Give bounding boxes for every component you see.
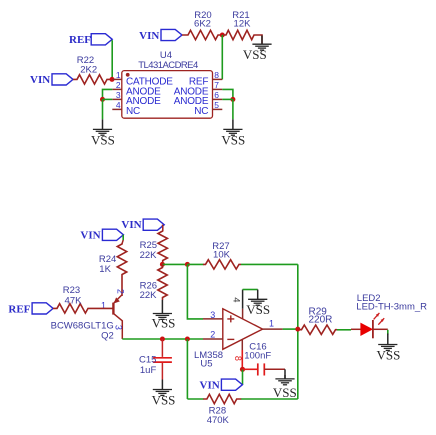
svg-text:47K: 47K [65, 296, 83, 307]
svg-text:7: 7 [214, 80, 219, 90]
svg-text:22K: 22K [140, 290, 158, 301]
svg-text:22K: 22K [140, 250, 158, 261]
port VIN (above R24) [80, 229, 123, 241]
node U5 output junction [295, 327, 300, 332]
node R20-R21 junction [220, 33, 225, 38]
pin 6 U4 [213, 90, 223, 100]
wire right rail (R27 to R28) [297, 264, 299, 399]
svg-text:220R: 220R [309, 315, 333, 326]
svg-text:LED-TH-3mm_R: LED-TH-3mm_R [356, 301, 427, 312]
pin 3 U5 label [210, 310, 215, 320]
pin 1 U5 [263, 319, 283, 330]
node U4 pin6 junction [230, 97, 235, 102]
LED LED2 [351, 293, 427, 339]
wire pin3 node to ground [102, 99, 104, 119]
svg-text:2: 2 [210, 330, 215, 340]
svg-text:VIN: VIN [30, 74, 50, 86]
pin 1 Q2 label [101, 301, 106, 311]
svg-text:VSS: VSS [376, 347, 400, 362]
svg-text:8: 8 [233, 356, 243, 361]
power VSS (above U5) [246, 290, 270, 318]
svg-text:3: 3 [116, 90, 121, 100]
svg-text:1K: 1K [99, 264, 111, 275]
port REF (left of R23) [8, 303, 53, 316]
resistor R24 1K [99, 244, 127, 297]
resistor R28 470K [187, 394, 297, 426]
svg-text:4: 4 [230, 297, 241, 302]
wire U4 pin2 to pin3 node [103, 89, 113, 99]
wire R29 to LED2 [337, 329, 351, 331]
pin 8 U5 [233, 339, 243, 369]
power VSS (under R26) [152, 300, 176, 331]
svg-text:VIN: VIN [200, 379, 220, 391]
pin 7 U4 [213, 80, 223, 90]
Q2 value label [51, 320, 114, 331]
pin 2 Q2 label [115, 289, 125, 294]
node U4 pin1 junction [110, 77, 115, 82]
node C15 junction [160, 337, 165, 342]
svg-text:6K2: 6K2 [194, 19, 211, 30]
svg-text:NC: NC [194, 106, 208, 117]
pin 3 U5 stub [203, 318, 223, 320]
power VSS (under C16) [273, 375, 297, 400]
wire Q2 emitter to U5 pin2 [122, 338, 203, 340]
node R27 branch junction [185, 262, 190, 267]
svg-text:6: 6 [214, 90, 219, 100]
power VSS (under U4 left) [91, 119, 115, 147]
svg-text:REF: REF [69, 34, 91, 46]
wire pin3 node [103, 98, 113, 100]
pin 8 U4 [213, 70, 223, 80]
port VIN (above R25) [121, 219, 164, 231]
resistor R26 22K [140, 264, 168, 301]
power VSS (under C15) [152, 380, 176, 408]
svg-text:VSS: VSS [91, 132, 115, 147]
svg-text:Q2: Q2 [101, 330, 114, 341]
svg-text:10K: 10K [213, 250, 231, 261]
Q2 designator [101, 330, 114, 341]
U5 labels [194, 350, 223, 370]
svg-text:VSS: VSS [273, 385, 297, 400]
port REF (top) [69, 34, 112, 46]
pin 5 U4 [213, 100, 223, 110]
svg-text:1: 1 [269, 319, 274, 329]
svg-text:NC: NC [126, 106, 140, 117]
wire pin6 stub link [222, 98, 233, 100]
node R28 branch junction [185, 337, 190, 342]
svg-text:12K: 12K [234, 19, 252, 30]
node pin8 junction [240, 367, 245, 372]
svg-text:VIN: VIN [80, 230, 100, 242]
wire R25 node to R27 node [162, 263, 187, 265]
svg-text:4: 4 [116, 100, 121, 110]
svg-text:C15: C15 [139, 354, 156, 365]
resistor R29 220R [300, 307, 337, 335]
power VSS (top right) [243, 36, 272, 63]
svg-text:REF: REF [8, 303, 30, 315]
wire LED2 cathode to VSS [387, 330, 389, 335]
svg-text:U5: U5 [200, 359, 212, 370]
node U4 pin3 junction [100, 97, 105, 102]
svg-text:VIN: VIN [139, 30, 159, 42]
svg-text:VSS: VSS [243, 47, 267, 62]
svg-text:R23: R23 [63, 285, 80, 296]
svg-text:VSS: VSS [246, 302, 270, 317]
svg-text:2K2: 2K2 [80, 65, 97, 76]
wire pin6 node to ground [232, 99, 234, 119]
svg-text:5: 5 [214, 100, 219, 110]
wire R27 to right rail [241, 263, 298, 265]
op-amp U5 LM358 triangle [223, 309, 263, 350]
pin 3 Q2 label [113, 325, 123, 330]
wire R20-R21 node to U4 pin8 [221, 35, 223, 79]
wire VIN to R24 [122, 235, 123, 244]
op-amp U4 TL431ACDRE4 body [122, 50, 213, 118]
svg-text:1: 1 [116, 70, 121, 80]
capacitor C15 1uF [139, 339, 172, 380]
power VSS (under U4 right) [221, 119, 245, 147]
capacitor C16 100nF [243, 341, 286, 379]
wire U5 out to rail [283, 328, 298, 330]
resistor R23 47K [53, 285, 113, 313]
wire U4 pin7 to pin6 node [222, 89, 233, 99]
port VIN (at U5 pin8) [200, 379, 243, 391]
pin 3 U4 [112, 90, 122, 100]
wire R21 to VSS [256, 35, 262, 44]
transistor Q2 BCW68GLT1G [113, 295, 122, 339]
pin 2 U5 [203, 330, 223, 340]
svg-text:VSS: VSS [152, 316, 176, 331]
resistor R27 10K [187, 241, 241, 269]
svg-text:2: 2 [116, 80, 121, 90]
svg-text:VSS: VSS [152, 393, 176, 408]
node R25-R26 junction [160, 262, 165, 267]
U4 pin names [126, 76, 209, 117]
pin 4 U5 [230, 290, 242, 319]
svg-text:470K: 470K [207, 415, 230, 426]
resistor R25 22K [140, 231, 168, 264]
resistor R20 6K2 [182, 10, 222, 40]
svg-text:8: 8 [214, 70, 219, 80]
svg-text:VSS: VSS [221, 132, 245, 147]
wire node to U5 pin3 [187, 264, 203, 319]
port VIN (left of R22) [30, 74, 73, 86]
wire R28 branch down [186, 339, 188, 399]
wire pin4 to VSS [243, 289, 258, 291]
svg-text:2: 2 [115, 289, 125, 294]
svg-text:1uF: 1uF [140, 365, 157, 376]
resistor R21 12K [222, 10, 256, 40]
wire REF to pin1 node [111, 40, 113, 79]
resistor R22 2K2 [73, 55, 112, 84]
wire pin8 node to VIN port [242, 369, 244, 384]
svg-text:3: 3 [113, 325, 123, 330]
power VSS (under LED2) [376, 334, 400, 363]
svg-text:TL431ACDRE4: TL431ACDRE4 [138, 60, 198, 71]
wire VIN to R25 [161, 225, 164, 232]
svg-text:100nF: 100nF [244, 351, 271, 362]
pin 4 U4 [112, 100, 122, 110]
port VIN (top) [139, 29, 182, 42]
svg-text:VIN: VIN [121, 219, 141, 231]
pin 2 U4 [112, 80, 122, 90]
pin 1 U4 [112, 70, 122, 80]
